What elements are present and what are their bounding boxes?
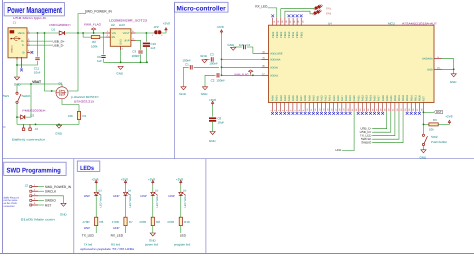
svg-text:D4: D4 [128,190,132,193]
svg-text:SWDIO: SWDIO [45,199,56,203]
connector J2 pin 4 [30,199,38,201]
svg-text:RST: RST [45,203,51,207]
wire VOUT rail [136,32,155,34]
svg-text:J1: J1 [13,20,16,24]
wire R1 top lead [78,105,80,112]
mcu U4 bottom pin PA03 stub [284,103,286,112]
svg-text:MCU: MCU [388,21,395,25]
wire U2 gnd drop [120,50,122,62]
capacitor C9 [138,51,142,53]
junction at PWR_FLAG [93,32,95,34]
resistor R10 [179,217,182,225]
no-connect mcu bottom pin PA04 [287,112,290,115]
mcu U4 body [269,25,435,102]
svg-text:DNP: DNP [84,226,90,230]
no-connect mcu bottom pin PA27 [377,112,380,115]
capacitor C8 polarized [209,117,216,121]
no-connect mcu bottom pin PA08 [304,112,307,115]
svg-text:10k: 10k [429,127,434,131]
ground at C4 [231,47,236,50]
svg-text:BYP: BYP [125,39,130,42]
connector J1 body [8,28,27,58]
wire TX led bottom [95,226,97,233]
svg-text:470R: 470R [167,220,175,224]
svg-text:SW1: SW1 [3,94,10,98]
wire battery bottom bus [17,123,79,125]
wire gate riser from VBUS [45,33,56,91]
svg-text:D5: D5 [155,190,159,193]
mcu U4 bottom pin PA30 stub [386,103,388,112]
mcu U4 bottom pin PB00 stub [394,103,396,112]
svg-text:D1: D1 [52,27,56,31]
no-connect mcu bottom pin PA13 [324,112,327,115]
connector J1 pin 2 stub [27,44,30,46]
no-connect mcu bottom pin PA17 [340,112,343,115]
mcu U4 bottom pin PA28 stub [382,103,384,112]
power +2V8 at led D3 [95,180,97,184]
svg-text:PB02: PB02 [402,94,405,101]
svg-text:PA31: PA31 [390,95,393,102]
svg-text:D2: D2 [30,113,34,117]
power +2V8 at led D4 [124,180,126,184]
svg-text:PA21: PA21 [357,95,360,102]
section title Power Management box [4,3,64,16]
svg-text:+2V8: +2V8 [176,177,183,181]
mcu U4 top pin PB03 stub [284,18,286,26]
mcu U4 bottom pin PB11 stub [414,103,416,112]
svg-text:PA25: PA25 [374,95,377,102]
power +2V8 at C8 [211,101,213,105]
svg-text:SWD_POWER_IN: SWD_POWER_IN [45,185,72,189]
wire power gnd bus [104,61,148,63]
svg-text:PA06: PA06 [296,95,299,102]
wire Q1 bulk to R1 [62,99,79,105]
svg-text:RST: RST [436,111,442,114]
svg-text:LED Yellow: LED Yellow [184,194,187,207]
wire VBAT to Q1 source [17,84,62,87]
svg-text:PA18: PA18 [345,95,348,102]
mcu U4 bottom pin PA05 stub [292,103,294,112]
junction VBAT at D2 riser [30,83,32,85]
svg-text:PA11: PA11 [316,95,319,101]
wire USB_D+ stub [30,40,52,42]
no-connect mcu bottom pin PA16 [336,112,339,115]
mcu U4 bottom pin PA14 stub [329,103,331,112]
svg-text:DNP: DNP [169,194,175,198]
wire C10 top lead [145,33,147,42]
svg-text:JP2: JP2 [153,25,159,29]
mcu U4 top pin PB10 stub [288,18,290,26]
diode D1 PMEG2020EH [59,31,64,35]
svg-text:PA03: PA03 [284,95,287,102]
svg-text:C2: C2 [211,79,215,83]
resistor R7 [124,217,127,225]
no-connect mcu bottom pin PA12 [320,112,323,115]
wire SWD_POWER_IN riser [78,14,86,33]
ground at mcu right [451,74,456,77]
svg-text:10uF: 10uF [217,120,224,124]
no-connect mcu bottom pin PA03 [283,112,286,115]
svg-text:PB22: PB22 [272,31,275,38]
svg-text:connector!: connector! [4,205,15,208]
mcu U4 bottom pin PA31 stub [390,103,392,112]
no-connect mcu bottom pin PA21 [357,112,360,115]
regulator U2 body [110,29,131,47]
svg-text:optional to populate TX / RX L: optional to populate TX / RX LEDs [80,247,135,251]
connector J1 usb icon [10,30,15,33]
mcu U4 right pin GND stub [434,68,442,70]
svg-text:SWD Programming: SWD Programming [7,168,61,175]
svg-text:+2V8: +2V8 [121,177,128,181]
svg-text:SW2: SW2 [431,135,438,139]
junction at D2 anode [16,116,18,118]
wire C3 to gnd [205,58,210,60]
svg-text:EN: EN [112,36,116,39]
ground under SW2 [421,150,426,153]
mcu U4 bottom pin PA12 stub [320,103,322,112]
wire C10 bottom lead [145,47,147,62]
ground under C1 [181,87,186,90]
wire C6 bottom lead [103,59,105,63]
wire C2 to gnd drop [205,75,216,87]
junction mcu gnd [453,68,455,70]
wire led D4 to resistor R7 [125,196,127,217]
wire BYP to C9 [136,40,141,50]
junction reset at RST label [423,111,425,113]
wire USB_D+ net [372,112,391,132]
wire PB03 to TP3 [285,11,313,17]
no-connect mcu bottom pin PB03 [406,112,409,115]
section divider vertical swd/leds [73,159,75,254]
no-connect J1 shield pin [20,69,23,72]
svg-text:D+: D+ [21,40,25,43]
sheet border tick [3,126,6,128]
svg-text:PA22: PA22 [361,95,364,102]
capacitor C10 polarized [143,43,150,47]
svg-text:PB11: PB11 [292,31,295,38]
svg-text:PB10: PB10 [288,31,291,38]
svg-text:LED Yellow: LED Yellow [156,194,159,207]
svg-text:R1: R1 [83,114,87,118]
connector J1 shield pin stub [21,57,23,69]
no-connect mcu top pin PB00 [296,14,299,17]
mcu U4 bottom pin PA08 stub [304,103,306,112]
svg-text:VBAT: VBAT [32,80,42,84]
ground under C2 [202,87,207,90]
global label RST [434,111,443,114]
capacitor C1 [190,65,192,69]
svg-text:SWD_POWER_IN: SWD_POWER_IN [85,10,113,14]
no-connect mcu bottom pin PA14 [328,112,331,115]
no-connect mcu bottom pin PA28 [381,112,384,115]
power +2V8 at regulator output [165,28,167,32]
svg-text:470R: 470R [82,220,90,224]
wire R2 left lead [83,33,91,37]
mcu U4 bottom pin PA20 stub [353,103,355,112]
svg-text:PA02: PA02 [280,95,283,102]
mcu U4 bottom pin PA21 stub [357,103,359,112]
wire C1 branch [194,66,219,68]
svg-text:D3: D3 [98,190,102,193]
svg-text:GND: GND [201,92,209,96]
wire C8 bottom lead [212,122,214,132]
switch SW1 symbol [16,92,21,103]
led D6 [179,192,185,196]
mcu U4 bottom pin PA15 stub [333,103,335,112]
mcu U4 left pin VDDIO stub [262,74,269,76]
svg-text:DNP: DNP [84,194,90,198]
no-connect mcu bottom pin PA07 [300,112,303,115]
wire VBUS rail D1 to U2 VIN [66,32,106,34]
ground under power led [150,233,155,236]
no-connect mcu bottom pin PA02 [279,112,282,115]
wire VDDIO [222,74,262,76]
svg-text:R9: R9 [433,118,437,122]
svg-text:ATSAMD21G18A-AUT: ATSAMD21G18A-AUT [402,21,437,25]
svg-text:GND: GND [60,213,68,217]
connector J2 pin 5 [30,204,38,206]
mcu U4 bottom pin PA02 stub [280,103,282,112]
svg-text:PA23: PA23 [365,95,368,102]
wire LED net [342,112,354,151]
wire C8 top lead [212,106,214,117]
svg-text:PB10: PB10 [410,94,413,101]
wire mcu +2V8 rail [221,34,223,75]
svg-text:TP1: TP1 [326,7,331,10]
svg-text:PMEG2020EH: PMEG2020EH [49,23,70,27]
svg-text:100nF: 100nF [216,79,225,83]
junction VOUT at C10 [146,32,148,34]
svg-text:J2: J2 [25,183,29,187]
svg-text:GND: GND [119,39,122,45]
svg-text:PB23: PB23 [276,31,279,38]
no-connect mcu bottom pin PA05 [292,112,295,115]
svg-text:R6: R6 [100,220,104,224]
power +2V8 mcu rail [220,30,222,34]
wire C11 bottom lead to gnd net [17,61,38,65]
svg-text:PA05: PA05 [292,95,295,102]
wire USB_D- stub [30,44,52,46]
junction rail at C6 [103,32,105,34]
junction battery bus gnd tap [58,124,60,126]
svg-text:PA01: PA01 [276,95,279,102]
connector J2 pin 3 [30,195,38,197]
mcu U4 bottom pin PA06 stub [296,103,298,112]
wire to RST label [423,111,433,113]
svg-text:program led: program led [174,243,190,247]
mcu U4 bottom pin PA11 stub [316,103,318,112]
mcu U4 bottom pin PA04 stub [288,103,290,112]
svg-text:USB_D-: USB_D- [53,43,64,47]
svg-text:PA10: PA10 [312,95,315,102]
junction at R2 riser [82,32,84,34]
wire J1 gnd to ground [16,60,18,77]
svg-text:PA00: PA00 [272,95,275,102]
svg-text:RX_LED: RX_LED [255,4,268,8]
wire D2 anode lead [17,116,20,118]
no-connect mcu bottom pin PA23 [365,112,368,115]
svg-text:Micro-controller: Micro-controller [177,5,227,12]
svg-text:PA17: PA17 [341,95,344,102]
connector J1 pin 1 stub [27,32,30,34]
connector J1 pin 4 stub [27,51,30,53]
ground at J2 [61,203,66,206]
svg-text:PA15: PA15 [333,95,336,102]
mcu U4 left pin VDDANA stub [262,58,269,60]
svg-text:R10: R10 [184,220,190,224]
svg-text:VDDIN: VDDIN [270,66,278,69]
no-connect mcu bottom pin PB10 [410,112,413,115]
wire J2 SWDIO [38,199,44,201]
wire USB_D- net [372,112,387,129]
connector J1 gnd pin stub [16,57,18,60]
svg-text:GND: GND [209,139,217,143]
svg-text:+2V8: +2V8 [163,22,170,26]
svg-text:BSH203,215: BSH203,215 [74,99,94,103]
no-connect mcu bottom pin PA22 [361,112,364,115]
junction gnd bus at C9 [140,61,142,63]
mcu U4 top pin PB11 stub [292,18,294,26]
no-connect mcu top pin PB01 [300,14,303,17]
capacitor C6 [101,56,105,58]
ground under J1 [14,77,19,80]
diode D2 PMEG2020EH [21,115,25,119]
svg-text:TX_LED: TX_LED [82,233,95,237]
svg-text:+2V8: +2V8 [217,25,224,29]
svg-text:GNDANA: GNDANA [422,58,433,61]
wire C9 bottom lead [140,54,142,62]
capacitor C4 [244,45,246,49]
junction rail at VDDIN [221,66,223,68]
section title LEDs box [77,161,100,171]
svg-text:PWR_FLAG: PWR_FLAG [84,23,102,27]
mcu U4 bottom pin PA09 stub [308,103,310,112]
svg-text:GND: GND [200,54,208,58]
led D5 [151,192,157,196]
connector J2 pin 2 [30,190,38,192]
no-connect mcu bottom pin PA09 [308,112,311,115]
svg-text:C4: C4 [247,43,251,47]
section divider horizontal [3,158,474,160]
wire J2 gnd [38,196,64,204]
wire JP2 to +2V8 [161,32,166,33]
wire C4 to VDDCORE [247,47,262,53]
no-connect mcu bottom pin PA25 [373,112,376,115]
svg-text:PMEG2020EH: PMEG2020EH [22,109,45,113]
svg-text:PA09: PA09 [308,95,311,102]
wire R1 bottom lead [78,120,80,125]
svg-text:TX led: TX led [84,243,93,247]
wire power led bottom [152,226,154,233]
svg-text:DNP: DNP [113,194,119,198]
svg-text:GND: GND [14,82,22,86]
led D4 [124,192,130,196]
connector J3 pin 2 [29,124,32,130]
svg-text:PA20: PA20 [353,95,356,102]
svg-text:PWR_FLAG: PWR_FLAG [235,72,249,76]
resistor R9 [429,123,438,126]
wire GND to gnd [442,69,454,74]
svg-text:PA08: PA08 [304,95,307,102]
svg-text:PA14: PA14 [329,95,332,102]
svg-text:100k: 100k [91,44,98,48]
svg-text:PA12: PA12 [321,95,324,102]
no-connect mcu top pin PB11 [292,14,295,17]
wire VDDANA [222,58,262,60]
wire C6 top lead [103,33,105,54]
mcu U4 top pin PB01 stub [300,18,302,26]
wire R2 to EN pin [100,36,106,38]
svg-text:100nF: 100nF [209,62,218,66]
wire J2 SWCLK [38,190,44,192]
no-connect mcu bottom pin PA06 [296,112,299,115]
svg-text:LD3985M28R_SOT23: LD3985M28R_SOT23 [109,19,147,23]
mcu U4 bottom pin PA17 stub [341,103,343,112]
svg-text:LDO: LDO [119,23,126,27]
svg-text:PA24: PA24 [370,95,373,102]
regulator U2 pin 4 stub [131,39,136,41]
test point TP3 [313,10,322,16]
no-connect mcu bottom pin PA10 [312,112,315,115]
wire R9 to +2V8 [438,123,449,125]
led D3 [94,192,100,196]
svg-text:Push button: Push button [431,140,447,144]
wire led D5 top [152,185,154,193]
svg-text:Battery connector: Battery connector [12,138,45,142]
section divider vertical leds/right [205,159,207,254]
svg-text:01x05 Male conn: 01x05 Male conn [21,218,55,222]
wire led D6 to resistor R10 [180,196,182,217]
svg-text:U4: U4 [328,21,332,25]
no-connect mcu top pin PB10 [288,14,291,17]
mcu U4 top pin PB22 stub [272,18,274,26]
wire led D3 to resistor R6 [95,196,97,217]
no-connect mcu bottom pin PA24 [369,112,372,115]
capacitor C11 [35,58,39,60]
svg-text:PB00: PB00 [296,31,299,38]
mcu U4 top pin PB02 stub [280,18,282,26]
wire SWCLK net [372,112,399,139]
svg-text:10uF: 10uF [34,70,41,74]
svg-text:C1: C1 [185,63,189,67]
junction rail at VDDIO [221,74,223,76]
test point TP1 [314,5,323,11]
wire switch top [16,84,18,92]
wire TX_LED net [372,112,395,136]
wire SW2 to gnd [422,146,424,150]
svg-text:PB03: PB03 [406,94,409,101]
svg-text:D-: D- [22,44,25,47]
svg-text:100nF: 100nF [132,54,141,58]
mcu U4 bottom pin PA22 stub [361,103,363,112]
wire J2 SWD_POWER_IN [38,186,44,188]
wire VDDIN [222,66,262,68]
mcu U4 bottom pin PA07 stub [300,103,302,112]
svg-text:SWDIO: SWDIO [361,141,372,145]
wire GNDANA to gnd [442,59,454,70]
junction gnd bus at U2 [120,61,122,63]
regulator U2 pin 5 stub [131,32,136,34]
svg-text:470R: 470R [139,220,147,224]
capacitor C2 [217,73,219,77]
svg-text:VOUT: VOUT [123,32,130,35]
mcu U4 bottom pin PB10 stub [410,103,412,112]
wire RESET drop [422,112,424,134]
wire J2 RST [38,204,44,206]
svg-text:PA13: PA13 [325,95,328,102]
no-connect mcu bottom pin PB30 [418,112,421,115]
svg-text:R7: R7 [129,220,133,224]
